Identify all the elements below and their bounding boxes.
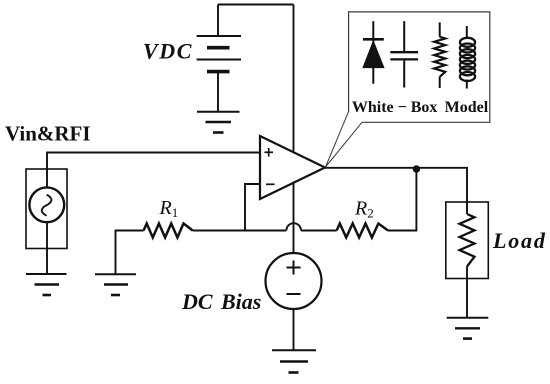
battery VDC plate short thick 1 (207, 46, 230, 50)
wire: load inner bottom lead (466, 267, 468, 279)
svg-text:Load: Load (492, 228, 547, 253)
load outer box (446, 202, 489, 279)
svg-text:DC: DC (181, 289, 213, 314)
resistor R1 (144, 224, 193, 238)
wire: DC bias to ground (293, 309, 295, 350)
wire: load to ground (466, 279, 468, 318)
op-amp U1 triangle (260, 136, 325, 199)
resistor in white-box model (434, 22, 445, 88)
wire: hop to R2 (301, 230, 337, 232)
wire: battery top lead (217, 5, 219, 37)
wire: top rail from battery to vertical supply (218, 4, 294, 6)
ground: VDC ground (197, 112, 240, 133)
svg-text:VDC: VDC (143, 39, 193, 64)
wire: load top lead inside box (466, 202, 468, 214)
DC bias + mark (287, 261, 301, 275)
wire hop over supply rail (286, 223, 301, 230)
svg-text:Bias: Bias (220, 289, 261, 314)
battery VDC plate long 2 (197, 59, 241, 61)
resistor R2 (337, 224, 388, 238)
DC bias source circle (266, 253, 322, 309)
AC source sine squiggle (42, 195, 52, 216)
callout tail line right (326, 122, 363, 167)
battery VDC plate long top (197, 35, 241, 37)
AC source circle (29, 187, 64, 222)
resistor inside load (460, 214, 475, 267)
wire: inverting input stub (245, 184, 260, 231)
diode in white-box model (362, 21, 384, 84)
ground: source ground (26, 274, 67, 295)
inductor in white-box model (460, 26, 475, 89)
wire: left ground corner to R1 (116, 231, 144, 274)
source Vin&RFI outer box (26, 169, 67, 249)
wire: op-amp output to load (325, 168, 467, 202)
wire: vertical supply rail down to DC bias (293, 5, 295, 254)
callout tail line left (326, 112, 349, 168)
DC bias - mark (287, 293, 301, 295)
wire: lead into AC source circle (46, 169, 48, 187)
svg-text:White − Box Model: White − Box Model (352, 99, 489, 116)
battery VDC plate short thick 2 (207, 70, 230, 74)
svg-text:R2: R2 (354, 198, 374, 221)
wire: source bottom lead (46, 222, 48, 273)
wire: R1 to hop (193, 230, 287, 232)
wire: battery bottom lead (217, 72, 219, 112)
ground: load ground (447, 318, 489, 339)
capacitor in white-box model (390, 21, 418, 87)
op-amp - input mark (266, 183, 275, 185)
wire: R2 right to feedback riser (388, 169, 416, 231)
svg-text:Vin&RFI: Vin&RFI (5, 122, 91, 146)
svg-text:R1: R1 (159, 197, 179, 220)
ground: DC bias ground (272, 350, 316, 372)
wire: input wire to op-amp + (47, 153, 260, 170)
ground: left ground (95, 274, 136, 295)
white-box model callout frame (349, 12, 490, 122)
node: output junction dot (413, 165, 420, 172)
op-amp + input mark (264, 148, 273, 157)
